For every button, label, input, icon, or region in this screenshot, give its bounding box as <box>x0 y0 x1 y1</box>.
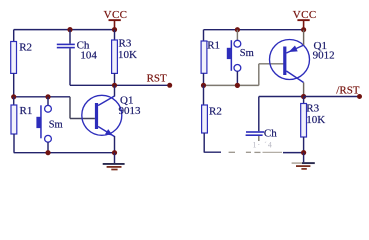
junction VCC/R3 (left) <box>112 27 117 32</box>
junction switch bottom (right) <box>235 83 240 88</box>
wire RST node <box>70 84 170 86</box>
port RST <box>147 73 173 88</box>
wire collector (right) <box>303 83 305 97</box>
svg-text:Sm: Sm <box>240 48 254 59</box>
switch Sm (left) <box>36 97 51 153</box>
svg-text:10K: 10K <box>118 49 137 61</box>
switch Sm (right) <box>227 30 241 86</box>
wire /RST stub <box>304 96 360 98</box>
junction R1/R2 (right) <box>201 83 206 88</box>
svg-text:RST: RST <box>147 73 167 85</box>
junction RST (left) <box>112 83 117 88</box>
capacitor Ch (right) <box>246 97 264 142</box>
resistor R2 <box>11 30 17 97</box>
power VCC (left) <box>104 9 128 30</box>
junction cap top (left) <box>67 27 72 32</box>
power VCC (right) <box>293 9 317 30</box>
resistor R3 (left) <box>112 30 118 86</box>
ground (right) <box>292 153 315 169</box>
svg-text:Ch: Ch <box>264 127 277 139</box>
ground (left) <box>103 153 125 170</box>
svg-text:R3: R3 <box>119 38 132 50</box>
resistor R1 (right) <box>201 30 207 86</box>
svg-text:104: 104 <box>80 49 97 61</box>
svg-text:/RST: /RST <box>336 85 360 97</box>
svg-text:R1: R1 <box>20 105 33 117</box>
svg-text:R3: R3 <box>306 103 319 115</box>
wire bottom rail (left) <box>14 152 115 154</box>
svg-text:R2: R2 <box>19 41 32 53</box>
wire mid rail (right) <box>204 84 259 86</box>
wire emitter (left) <box>114 136 116 153</box>
wire bottom rail (right, faded) <box>204 151 303 153</box>
wire collector (left) <box>114 85 116 96</box>
svg-text:10K: 10K <box>306 114 325 126</box>
resistor R3 (right) <box>301 97 307 153</box>
wire base path (left) <box>70 97 95 119</box>
transistor Q1 (left, NPN 9013) <box>82 95 122 136</box>
transistor Q1 (right, PNP 9012) <box>270 40 310 83</box>
wire emitter (right) <box>303 30 305 45</box>
wire /RST node left part <box>259 96 304 98</box>
wire top rail (left) <box>14 29 115 31</box>
svg-text:R2: R2 <box>209 106 222 118</box>
junction R3 bottom / ground (right) <box>301 150 306 155</box>
wire base path (right) <box>259 64 285 86</box>
svg-text:9013: 9013 <box>119 105 142 117</box>
resistor R2 (right) <box>202 85 208 152</box>
resistor R1 <box>11 97 17 153</box>
junction R2/R1 (left) <box>11 94 16 99</box>
svg-text:9012: 9012 <box>313 50 335 62</box>
junction /RST (right) <box>301 94 306 99</box>
junction switch top (left) <box>45 94 50 99</box>
svg-text:R1: R1 <box>207 40 220 52</box>
svg-text:Sm: Sm <box>49 119 63 130</box>
junction switch bottom (left) <box>45 150 50 155</box>
port /RST <box>336 85 362 100</box>
wire top rail (right) <box>204 29 304 31</box>
junction switch top rail (right) <box>235 27 240 32</box>
svg-text:1· ´4: 1· ´4 <box>253 140 273 149</box>
junction emitter/ground (left) <box>112 150 117 155</box>
wire mid rail (left) <box>14 96 70 98</box>
capacitor Ch (left) <box>57 30 75 86</box>
junction VCC/emitter (right) <box>301 27 306 32</box>
